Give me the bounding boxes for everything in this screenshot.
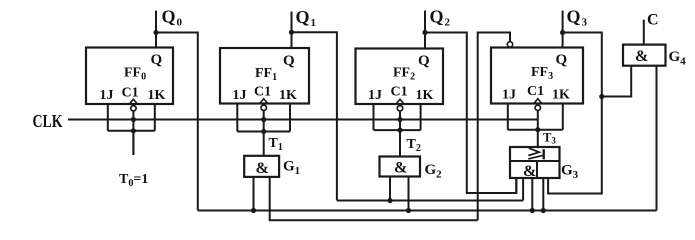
wire C output of G4 — [643, 20, 645, 45]
wire FF2 1J stub — [373, 104, 375, 130]
node Q2 junction — [422, 30, 427, 35]
node FF3 rail junction T3 — [535, 127, 540, 132]
wire Q0 output stub — [155, 11, 157, 48]
label OR of G3 — [528, 148, 543, 159]
wire G2 left input from Q1 bus — [389, 177, 391, 201]
node G2 right input on Q0 bus — [406, 208, 411, 213]
svg-text:1J: 1J — [233, 88, 247, 103]
wire Q2 output stub — [424, 11, 426, 49]
wire G3 right cell input Q0 from bus — [542, 178, 544, 211]
node FF0 rail junction — [131, 128, 136, 133]
wire FF1 JK rail — [237, 131, 290, 133]
svg-text:1K: 1K — [552, 88, 570, 103]
svg-text:&: & — [256, 160, 269, 177]
node FF2 clock junction — [397, 117, 402, 122]
node Q1 junction — [289, 30, 294, 35]
wire FF3 1K stub — [562, 104, 564, 130]
svg-text:C1: C1 — [122, 86, 139, 101]
wire FF0 1J stub — [107, 104, 109, 131]
node FF0 clock junction — [131, 117, 136, 122]
node G2 left input on Q1 bus — [387, 198, 392, 203]
svg-text:1J: 1J — [368, 88, 382, 103]
flip-flop FF3 — [491, 42, 583, 111]
svg-text:1K: 1K — [148, 88, 166, 103]
wire Q3 to G4 input — [602, 66, 631, 97]
wire G3 AND input Q2 — [515, 178, 517, 193]
wire FF0 C1 to T0 stub — [132, 111, 134, 155]
wire FF3 JK rail — [508, 129, 563, 131]
wire FF1 1J stub — [236, 104, 238, 132]
wire G3 AND input Q0 from bus — [531, 178, 533, 211]
svg-text:1K: 1K — [279, 88, 297, 103]
wire G4 right input from Q0 bus — [656, 66, 658, 211]
wire FF1 1K stub — [289, 104, 291, 132]
gate G1 AND — [244, 156, 279, 177]
svg-text:&: & — [394, 160, 407, 177]
wire FF3 1J stub — [507, 104, 509, 130]
wire Q1 branch to bus — [292, 32, 337, 200]
wire Q3 output stub — [562, 11, 564, 48]
wire FF0 1K stub — [154, 104, 156, 131]
svg-text:C1: C1 — [391, 85, 408, 100]
node Q0 junction — [153, 30, 158, 35]
wire G3 AND input Q1 from bus — [522, 178, 524, 201]
wire Q1 output stub — [291, 12, 293, 49]
svg-text:C: C — [647, 12, 659, 29]
wire FF2 1K stub — [420, 104, 422, 130]
node FF1 rail junction T1 — [261, 129, 266, 134]
wire FF2 JK rail — [374, 129, 421, 131]
flip-flop FF1 — [220, 48, 309, 111]
node FF1 clock junction — [261, 117, 266, 122]
node FF2 rail junction T2 — [397, 128, 402, 133]
wire CLK line — [68, 119, 538, 121]
svg-text:Q: Q — [418, 53, 430, 69]
wire Q0 bus — [198, 210, 657, 212]
wire Q0 branch to bottom bus — [156, 33, 198, 211]
wire G1 right input from Q3bar bus — [270, 177, 478, 220]
wire G2 right input from Q0 bus — [408, 177, 410, 211]
wire T0 stub — [132, 131, 134, 155]
node Q3 to G4 junction — [599, 94, 604, 99]
flip-flop FF0 — [86, 48, 173, 112]
wire FF0 JK rail — [108, 130, 155, 132]
svg-text:CLK: CLK — [33, 111, 63, 131]
gate G2 AND — [380, 157, 421, 177]
flip-flop FF2 — [356, 49, 444, 112]
wire Q3 branch down right side — [548, 33, 602, 194]
svg-text:Q: Q — [556, 52, 568, 68]
svg-text:Q: Q — [283, 53, 295, 69]
wire Q1 bus — [337, 200, 523, 202]
svg-text:1J: 1J — [502, 88, 516, 103]
node G1 left input on Q0 bus — [251, 208, 256, 213]
wire FF3 C1 to G3 — [537, 111, 539, 148]
svg-text:&: & — [635, 48, 648, 65]
gate G3 AND-OR — [510, 147, 560, 178]
wire FF2 C1 to G2 — [399, 111, 401, 157]
node G3 AND input on Q0 bus — [530, 208, 535, 213]
wire Q2 branch to G3 — [425, 33, 516, 194]
wire G1 left input from Q0 bus — [253, 177, 255, 211]
svg-text:1J: 1J — [100, 88, 114, 103]
gate G4 AND — [623, 45, 666, 66]
node Q3 junction — [560, 30, 565, 35]
wire FF3 inverted output Q3bar — [478, 33, 510, 221]
svg-text:C1: C1 — [254, 85, 271, 100]
svg-text:&: & — [523, 163, 536, 180]
node G3 right cell input on Q0 bus — [541, 208, 546, 213]
svg-text:C1: C1 — [527, 84, 544, 99]
wire FF1 C1 to G1 — [263, 111, 265, 156]
svg-text:Q: Q — [151, 52, 163, 68]
svg-text:1K: 1K — [416, 88, 434, 103]
svg-text:T0=1: T0=1 — [119, 172, 148, 189]
